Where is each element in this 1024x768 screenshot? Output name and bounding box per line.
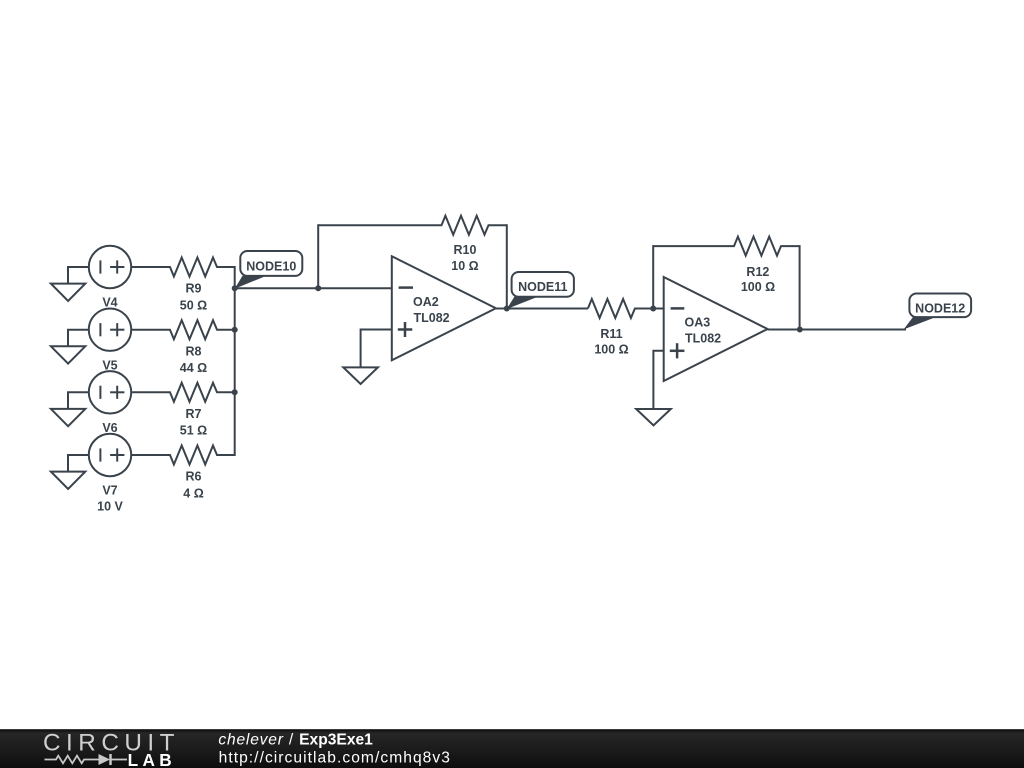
svg-text:TL082: TL082: [414, 311, 450, 325]
node NODE10 dot: [232, 285, 238, 291]
resistor R9: [131, 258, 235, 277]
wire feedback right OA2: [506, 224, 508, 308]
svg-text:NODE11: NODE11: [518, 280, 567, 294]
voltage source V7: [89, 434, 131, 476]
resistor R10: [318, 216, 507, 235]
svg-text:NODE12: NODE12: [915, 301, 965, 315]
ground: [636, 409, 671, 425]
resistor R12: [653, 237, 799, 256]
logo diode glyph: [99, 754, 128, 765]
wire feedback left OA3: [652, 245, 654, 308]
wire: [68, 392, 89, 409]
node NODE11 dot: [504, 306, 510, 312]
svg-text:10 Ω: 10 Ω: [451, 259, 478, 273]
wire: [68, 330, 89, 347]
resistor R6: [131, 446, 235, 465]
op-amp OA3: [664, 277, 768, 381]
wire feedback right OA3: [799, 245, 801, 329]
voltage source V6: [89, 371, 131, 413]
wire output OA2: [496, 308, 588, 310]
svg-text:R6: R6: [186, 470, 202, 484]
logo resistor glyph: [45, 756, 99, 764]
wire plus input OA2: [361, 330, 392, 368]
resistor R11: [588, 299, 664, 318]
svg-text:R11: R11: [600, 327, 622, 341]
op-amp OA2: [392, 256, 496, 360]
svg-text:100 Ω: 100 Ω: [741, 280, 775, 294]
wire to op-amp: [235, 287, 392, 289]
ground: [51, 284, 85, 301]
svg-text:OA2: OA2: [413, 295, 439, 309]
svg-text:OA3: OA3: [685, 316, 711, 330]
junction: [232, 389, 238, 395]
node label NODE10: [235, 251, 303, 289]
svg-text:R8: R8: [186, 344, 202, 358]
svg-text:http://circuitlab.com/cmhq8v3: http://circuitlab.com/cmhq8v3: [219, 750, 451, 767]
wire plus input OA3: [653, 351, 663, 409]
wire: [68, 455, 89, 472]
ground: [51, 409, 85, 426]
svg-text:LAB: LAB: [128, 750, 177, 768]
svg-text:51 Ω: 51 Ω: [180, 424, 207, 438]
wire bus: [234, 266, 236, 456]
node label NODE12: [904, 294, 972, 330]
svg-text:10 V: 10 V: [97, 499, 123, 513]
junction: [315, 285, 321, 291]
ground: [51, 472, 85, 489]
svg-text:R9: R9: [186, 282, 202, 296]
voltage source V4: [89, 246, 131, 288]
resistor R7: [131, 383, 235, 402]
svg-text:NODE10: NODE10: [246, 259, 296, 273]
ground: [343, 367, 378, 384]
svg-text:50 Ω: 50 Ω: [180, 298, 207, 312]
resistor R8: [131, 320, 235, 339]
wire: [68, 267, 89, 284]
wire output OA3: [768, 329, 906, 331]
svg-text:TL082: TL082: [685, 332, 721, 346]
svg-text:R12: R12: [746, 265, 769, 279]
footer bar: [0, 729, 1024, 768]
svg-text:V4: V4: [102, 296, 117, 310]
junction: [650, 306, 656, 312]
svg-text:V5: V5: [102, 358, 117, 372]
voltage source V5: [89, 309, 131, 351]
ground: [51, 346, 85, 363]
svg-text:chelever / Exp3Exe1: chelever / Exp3Exe1: [218, 731, 373, 748]
junction: [232, 327, 238, 333]
svg-text:4 Ω: 4 Ω: [183, 486, 203, 500]
svg-text:R7: R7: [186, 407, 202, 421]
svg-text:100 Ω: 100 Ω: [594, 343, 628, 357]
svg-text:R10: R10: [454, 243, 477, 257]
svg-text:V6: V6: [102, 421, 117, 435]
node label NODE11: [507, 272, 574, 309]
node NODE12 dot: [797, 327, 803, 333]
svg-text:44 Ω: 44 Ω: [180, 361, 207, 375]
svg-text:V7: V7: [102, 484, 117, 498]
wire feedback left OA2: [317, 224, 319, 288]
